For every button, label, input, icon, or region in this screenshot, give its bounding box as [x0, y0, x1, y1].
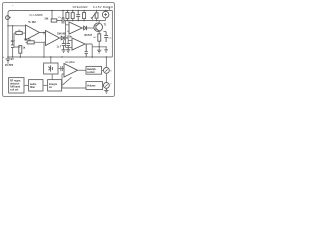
box regen: [86, 66, 102, 74]
svg-text:coil set: coil set: [10, 88, 18, 91]
wire second rail: [57, 20, 106, 22]
wire volume to pot: [102, 85, 105, 87]
diode D2: [84, 26, 87, 30]
wire left drop x12: [9, 17, 12, 57]
wire VR1 to VR2: [105, 74, 107, 83]
svg-text:socket: socket: [87, 71, 95, 74]
wire top rail: [8, 11, 112, 58]
capacitor C2 on x12: [11, 45, 14, 48]
svg-text:10u: 10u: [108, 38, 111, 40]
resistor R5: [27, 41, 34, 44]
svg-text:BC547: BC547: [85, 34, 93, 37]
wire box X1 output: [58, 66, 64, 71]
diode D3 diagonal: [91, 13, 95, 19]
wire U2b inputs: [66, 41, 73, 48]
wire U2a inputs: [66, 21, 70, 48]
capacitor C5 vertical pair: [62, 18, 64, 24]
wire x52 drop: [52, 11, 63, 19]
box volume: [86, 82, 103, 90]
potentiometer VR1: [104, 68, 110, 74]
ground under VR2: [104, 89, 108, 94]
transistor Q1: [94, 23, 103, 32]
wire D2 to Q1 base: [87, 27, 95, 29]
wire block3 right: [61, 84, 63, 86]
svg-text:R7 1k: R7 1k: [24, 38, 31, 41]
wire box X1 down to box D3b: [51, 74, 53, 79]
resistor R4 horizontal: [51, 19, 57, 22]
wire ground rail: [8, 56, 112, 58]
wire U2b output: [85, 44, 92, 57]
svg-text:Volume: Volume: [87, 84, 96, 87]
resistor R6b vertical: [71, 13, 74, 19]
wire U3 output: [78, 69, 87, 71]
capacitor C7 electrolytic: [104, 32, 108, 43]
svg-text:220k: 220k: [67, 35, 73, 38]
svg-text:1k: 1k: [23, 47, 26, 50]
wire feedback vertical: [14, 33, 20, 47]
wire right rail: [111, 11, 113, 58]
wire rail to box X1: [50, 57, 52, 63]
svg-text:47n: 47n: [58, 17, 61, 19]
box block3: [48, 80, 62, 91]
svg-text:R: R: [110, 71, 112, 73]
svg-text:T1: T1: [104, 23, 107, 26]
svg-text:TL 082: TL 082: [28, 21, 36, 24]
capacitor C3: [62, 44, 66, 50]
potentiometer VR2: [104, 83, 110, 89]
wire pot VR1 to rail: [105, 57, 107, 67]
wire D1 to caps: [64, 38, 69, 43]
wire R9 down: [92, 41, 107, 47]
ground under C3: [62, 50, 66, 53]
earphone symbol: [48, 65, 52, 71]
ground under R9: [97, 50, 101, 53]
stray mark top: [12, 4, 13, 7]
battery B1: [7, 57, 9, 58]
capacitor C6: [76, 11, 80, 21]
wire tri1 plus input: [8, 25, 26, 27]
op-amp U1b: [46, 31, 60, 46]
junction dots: [7, 10, 107, 58]
wire C7 top: [104, 31, 107, 33]
wire Q1 collector: [97, 21, 100, 24]
wire U1a output: [40, 33, 46, 35]
resistor R7 vertical: [83, 13, 86, 19]
svg-text:filter: filter: [30, 86, 35, 89]
border frame: [3, 3, 115, 97]
op-amp U2b: [72, 38, 85, 50]
wire U1b output: [60, 37, 62, 39]
speaker LS1: [102, 11, 109, 18]
svg-text:+: +: [3, 56, 5, 59]
ground under C4: [66, 50, 70, 53]
svg-text:10k: 10k: [44, 17, 49, 20]
resistor R6 vertical: [66, 13, 69, 19]
capacitor C4: [66, 44, 70, 50]
wire regen to pot: [102, 69, 104, 71]
svg-text:4u7: 4u7: [11, 40, 16, 43]
wire diagonal feedback: [63, 77, 72, 85]
wire block1 to block2: [24, 84, 29, 86]
svg-text:9-15V RADIO: 9-15V RADIO: [93, 5, 114, 9]
box block1: [9, 78, 24, 93]
wire Q1 emitter: [98, 31, 100, 34]
ground under C7: [104, 50, 108, 53]
capacitor C8: [85, 44, 88, 57]
wire U3 lower input net: [62, 74, 86, 88]
svg-text:9V: 9V: [11, 58, 14, 61]
wire tri2 lower drop: [26, 41, 46, 57]
svg-text:SPEAKER: SPEAKER: [73, 5, 88, 9]
box block2: [29, 80, 43, 91]
wire block2 to block3: [43, 84, 48, 86]
wire arrow up: [109, 7, 111, 10]
wire U2a output: [82, 27, 84, 29]
earphone box X1: [44, 63, 58, 74]
op-amp U3: [64, 64, 78, 78]
resistor R8 vertical: [95, 13, 98, 18]
node input terminal G: [6, 16, 10, 20]
resistor R3 vertical: [19, 46, 22, 54]
svg-text:10k: 10k: [18, 30, 21, 32]
svg-text:1c 7: 1c 7: [57, 45, 62, 48]
svg-text:V: V: [110, 84, 112, 86]
svg-text:1N4148: 1N4148: [57, 33, 66, 36]
resistor R9 vertical: [98, 34, 101, 41]
diode D1: [61, 36, 64, 40]
op-amp U1a: [26, 25, 40, 40]
wire R3 to ground rail: [19, 53, 21, 57]
svg-text:tor: tor: [49, 86, 52, 89]
wire R5 to tri2 input: [26, 42, 46, 57]
resistor R2 horizontal: [16, 32, 22, 35]
svg-text:IC LM386: IC LM386: [30, 13, 43, 17]
svg-text:4k7: 4k7: [93, 37, 97, 39]
labels: [3, 5, 114, 91]
svg-text:Amplifier: Amplifier: [65, 60, 75, 64]
wire resistor R2 to tri1: [14, 32, 26, 34]
op-amp U2a: [69, 22, 82, 34]
svg-text:9V PP3: 9V PP3: [5, 64, 14, 67]
